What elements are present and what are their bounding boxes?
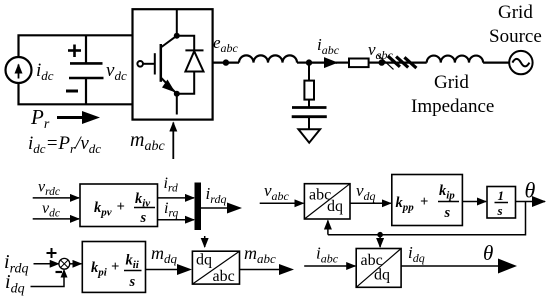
wire cap to ground	[308, 117, 310, 130]
wire sum to kpi	[69, 263, 81, 265]
transistor emitter arrowhead	[162, 80, 175, 93]
svg-text:s: s	[444, 205, 451, 221]
svg-text:s: s	[497, 203, 503, 218]
wire i_rq	[158, 219, 195, 221]
capacitor Cdc plates	[69, 63, 104, 78]
wire resistor to vabc node	[369, 61, 382, 63]
svg-text:Grid: Grid	[498, 2, 533, 23]
wire v_abc to abc/dq	[260, 202, 304, 204]
block kpp controller	[392, 175, 463, 226]
node top junction	[174, 33, 180, 39]
node e_abc dot	[223, 59, 229, 65]
arrow theta out	[516, 201, 546, 203]
arrow mux to dq/abc	[204, 236, 206, 247]
wire diode top branch	[177, 36, 194, 51]
svg-text:dq: dq	[327, 198, 343, 215]
wire dc bottom rail	[19, 83, 133, 104]
mux bar	[195, 183, 202, 231]
wire into resistor	[336, 61, 349, 63]
block abc/dq transform 1	[304, 184, 350, 219]
wire i_abc with arrow	[309, 61, 337, 63]
arrow m_abc	[240, 264, 295, 275]
wire dc top rail	[19, 35, 133, 57]
svg-text:θ: θ	[525, 178, 536, 203]
svg-text:Impedance: Impedance	[411, 96, 494, 117]
breaker slash thin	[378, 55, 394, 70]
current source Idc	[6, 57, 32, 83]
summing junction	[59, 258, 70, 269]
wire capacitor bottom stem	[85, 78, 87, 104]
wire to PCC node	[297, 61, 309, 63]
label plus sum	[47, 248, 57, 258]
svg-text:θ: θ	[483, 241, 493, 265]
wire resistor to cap	[308, 100, 310, 108]
minus sign	[66, 90, 78, 93]
node feedback dot	[377, 232, 383, 238]
breaker slash 2	[396, 57, 408, 68]
arrow i_dq theta out	[401, 259, 517, 274]
arrow P_r	[57, 111, 100, 124]
arrow m_dq	[146, 264, 193, 275]
resistor R damp	[304, 81, 314, 100]
svg-text:1: 1	[498, 188, 505, 203]
svg-text:+: +	[420, 194, 428, 210]
ground symbol	[298, 129, 320, 142]
arrow feedback into abc/dq 1	[327, 221, 329, 235]
wire capacitor top stem	[85, 35, 87, 63]
svg-text:dq: dq	[374, 267, 390, 284]
wire v_rdc input	[33, 197, 79, 199]
breaker slash 3	[404, 57, 416, 68]
block integrator 1/s	[487, 187, 516, 219]
svg-text:s: s	[140, 210, 147, 226]
wire v_dq	[350, 202, 391, 204]
inductor L grid impedance	[427, 56, 483, 63]
arrow m_abc input	[172, 123, 174, 160]
wire i_rdq to sum	[34, 263, 59, 265]
fraction bar kiv	[134, 207, 155, 209]
breaker slash 1	[388, 56, 400, 67]
wire kpp to 1/s	[462, 201, 486, 203]
converter box U1	[133, 9, 213, 119]
wire converter bottom leg	[176, 94, 178, 115]
AC source grid	[509, 51, 532, 74]
diode D1	[185, 50, 203, 71]
svg-text:Grid: Grid	[434, 72, 469, 93]
wire i_rd	[158, 197, 195, 199]
fraction bar kip	[438, 201, 459, 203]
wire converter top leg	[176, 9, 178, 36]
node v_abc dot	[379, 59, 385, 65]
svg-text:Source: Source	[489, 26, 542, 47]
arrow feedback into abc/dq 2	[379, 235, 381, 247]
label minus sum	[56, 271, 63, 273]
block abc/dq transform 2	[356, 249, 401, 288]
wire shunt branch down	[308, 63, 310, 81]
resistor R grid	[349, 59, 369, 68]
capacitor C filter	[292, 108, 327, 117]
svg-text:dq: dq	[196, 252, 212, 269]
arrow i_rdq out	[201, 203, 242, 214]
node bottom junction	[174, 91, 180, 97]
node PCC dot	[306, 59, 312, 65]
arrowhead i_dq up	[61, 269, 68, 278]
svg-text:abc: abc	[213, 268, 235, 285]
block kpi controller	[82, 242, 145, 293]
svg-text:+: +	[111, 259, 119, 275]
wire feedback down	[328, 202, 526, 235]
fraction bar kii	[124, 270, 142, 272]
block dq/abc transform	[192, 251, 239, 285]
wire to grid source	[483, 61, 509, 63]
plus sign	[68, 45, 81, 58]
block kpv controller	[80, 184, 158, 227]
wire v_dc input	[33, 218, 79, 220]
wire diode bottom branch	[177, 72, 194, 94]
wire i_abc to abc/dq 2	[304, 265, 355, 267]
svg-text:s: s	[129, 274, 136, 290]
transistor Q1 IGBT	[137, 36, 176, 94]
wire through breaker	[382, 61, 427, 63]
svg-text:+: +	[117, 199, 125, 215]
wire i_dq to sum	[31, 271, 65, 287]
wire converter output	[213, 61, 239, 63]
inductor L filter	[239, 55, 297, 62]
